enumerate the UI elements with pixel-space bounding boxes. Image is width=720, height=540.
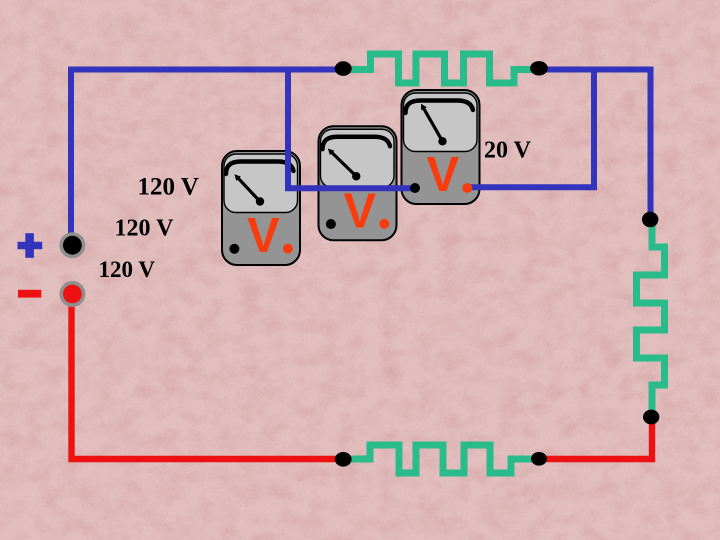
- voltmeter V3 left terminal: [410, 183, 420, 193]
- wire branch to voltmeter V3 left terminal: [288, 72, 413, 188]
- plus symbol: [18, 233, 43, 258]
- node E: [531, 452, 547, 466]
- svg-text:V: V: [247, 209, 280, 263]
- svg-text:V: V: [344, 184, 377, 238]
- wire from + terminal up left side and across top: [71, 70, 345, 243]
- node D: [643, 410, 659, 425]
- svg-text:120 V: 120 V: [138, 174, 199, 201]
- svg-text:120 V: 120 V: [115, 216, 175, 242]
- voltmeter V3 right terminal (period of V.): [462, 183, 472, 193]
- svg-text:V: V: [427, 148, 460, 202]
- minus symbol: [18, 290, 41, 298]
- battery + terminal: [59, 232, 85, 258]
- voltmeter V2: [319, 126, 397, 240]
- resistor R2 right: [637, 223, 665, 413]
- wire from node B across top right and down: [541, 70, 651, 220]
- node B: [530, 61, 548, 75]
- wire from node D down and across bottom right: [540, 417, 652, 459]
- node A: [335, 61, 352, 76]
- wire branch to voltmeter V3 right terminal: [468, 72, 594, 187]
- voltmeter V1: [222, 151, 300, 265]
- svg-text:20 V: 20 V: [484, 138, 532, 164]
- resistor R1 top: [345, 54, 536, 83]
- node C: [642, 212, 658, 227]
- resistor R3 bottom: [345, 445, 537, 473]
- voltmeter V3: [402, 90, 480, 204]
- wire bottom left and up to - terminal: [72, 297, 346, 459]
- battery - terminal: [59, 281, 85, 307]
- node F: [335, 452, 352, 467]
- svg-text:120 V: 120 V: [99, 257, 156, 282]
